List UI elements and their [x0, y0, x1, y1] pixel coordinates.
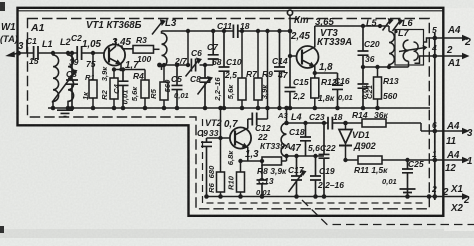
output arrow terminal 4	[435, 55, 464, 57]
wire to terminal 4	[415, 56, 436, 63]
capacitor C18	[300, 123, 311, 156]
scan artifact left edge	[0, 226, 4, 233]
capacitor C15	[285, 56, 296, 108]
capacitor C10	[219, 31, 230, 108]
output arrow terminal 6	[435, 130, 464, 132]
transistor VT3	[297, 46, 319, 68]
inductor L7 primary winding	[403, 40, 408, 61]
inductor L7 secondary winding	[414, 42, 419, 60]
wire	[38, 52, 77, 54]
scan artifact top-left corner	[0, 2, 5, 11]
main mid rail (supply/ground of RF section)	[48, 107, 430, 109]
wire tank bottom y67	[363, 61, 409, 67]
capacitor C22	[319, 123, 330, 197]
bottom page gray strip	[0, 229, 474, 238]
emitter node wire	[315, 72, 338, 74]
resistor R3	[133, 46, 154, 54]
wire VT2 base	[207, 137, 234, 139]
wire vertical junction	[187, 31, 189, 65]
output arrow terminal 2	[435, 196, 464, 198]
supply rail y31	[162, 30, 291, 32]
transformer screen box L6/L7 dashed	[395, 30, 424, 66]
resistor R12	[314, 73, 316, 108]
VT2 base feed vertical	[220, 108, 222, 138]
trimmer capacitor C6	[191, 59, 195, 72]
capacitor C23	[328, 117, 332, 130]
varicap diode VD1	[345, 123, 347, 130]
inductor L6	[389, 32, 394, 68]
emitter wire VT1	[114, 69, 145, 71]
chassis ground symbol left	[57, 110, 73, 116]
resistor R2	[113, 70, 115, 109]
dashed module border A1	[28, 19, 430, 209]
tuning arrow L6	[393, 20, 402, 32]
inductor L1	[53, 53, 59, 108]
resistor R14	[362, 119, 386, 127]
emitter node wire y161	[241, 160, 263, 162]
oscillator output wire y160	[346, 159, 435, 161]
capacitor C13	[257, 165, 268, 197]
wire vertical	[267, 31, 269, 108]
ground rail y196.5	[207, 196, 435, 198]
thick outer frame of schematic	[18, 8, 444, 216]
wire: input line	[19, 52, 34, 54]
capacitor C9	[201, 138, 212, 197]
output arrow terminal 5	[435, 37, 464, 39]
resistor R10	[240, 161, 242, 197]
inner top hairline of frame	[18, 10, 443, 12]
capacitor C12	[252, 113, 256, 126]
dashed gang-tuning link line	[302, 200, 474, 225]
variable capacitor C19	[310, 156, 321, 197]
inductor L4	[281, 108, 286, 157]
capacitor C1	[34, 46, 38, 60]
inner dashed boundary of oscillator block	[203, 119, 425, 203]
wire y156	[287, 155, 325, 157]
collector tank wire y26	[315, 26, 389, 32]
capacitor C5	[172, 65, 183, 108]
scan noise overlay	[0, 0, 1, 1]
output arrow terminal 1	[435, 159, 464, 161]
resistor R5	[163, 65, 165, 108]
resistor R8	[262, 157, 282, 165]
tuning arrow L5	[383, 19, 392, 31]
capacitor C11	[233, 25, 237, 39]
inductor L3	[162, 31, 167, 70]
transistor VT2	[230, 127, 251, 148]
wire to terminal 5	[424, 38, 435, 42]
capacitor C14	[274, 31, 285, 108]
terminal bus bar right	[434, 33, 436, 200]
antenna W1 input arrow	[8, 53, 19, 55]
capacitor C20	[358, 26, 369, 67]
capacitor C25	[402, 160, 413, 197]
junction dots	[16, 51, 21, 56]
resistor R13	[377, 67, 379, 108]
wire VT3 base feed	[290, 31, 302, 56]
capacitor C7	[208, 31, 219, 65]
varicap feed wire y123	[287, 122, 363, 124]
resistor R11	[358, 156, 382, 164]
resistor R4	[144, 70, 146, 109]
wire C12 to injection node	[257, 108, 268, 119]
terminal 3 tick	[26, 40, 28, 53]
collector wire to C12	[248, 118, 253, 120]
resistor R1	[92, 53, 94, 108]
trimmer capacitor C8	[200, 65, 211, 108]
wire: tank line y65	[160, 64, 214, 66]
trimmer capacitor C17	[291, 156, 302, 197]
ground symbol at C25	[400, 189, 416, 196]
schematic paper area	[17, 8, 444, 217]
L7 slug adjust arrow	[399, 48, 424, 52]
resistor R9	[257, 31, 259, 108]
resistor R7	[241, 31, 243, 108]
inductor L2	[68, 53, 74, 108]
transistor VT1	[104, 44, 125, 65]
test point K1	[289, 15, 291, 31]
capacitor C4	[118, 70, 129, 109]
resistor R6	[220, 138, 222, 197]
trimmer capacitor C3	[66, 53, 78, 108]
capacitor C2	[77, 46, 81, 60]
wire to VT1 base	[82, 52, 109, 54]
capacitor C16	[332, 73, 343, 108]
capacitor C21	[358, 67, 369, 108]
